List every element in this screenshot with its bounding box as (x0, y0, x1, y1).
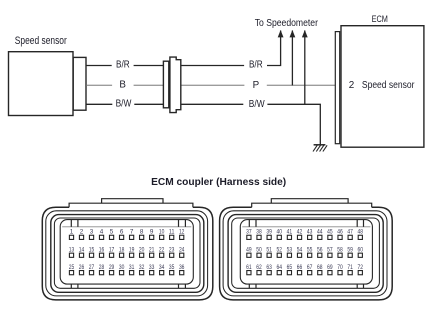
svg-text:5: 5 (110, 229, 114, 236)
svg-text:44: 44 (317, 229, 323, 236)
svg-text:43: 43 (307, 229, 313, 236)
svg-text:62: 62 (256, 264, 262, 271)
svg-text:B/W: B/W (249, 99, 265, 110)
svg-text:8: 8 (140, 229, 144, 236)
svg-text:17: 17 (109, 247, 115, 254)
svg-text:36: 36 (179, 264, 185, 271)
svg-text:28: 28 (99, 264, 105, 271)
svg-text:22: 22 (159, 247, 165, 254)
svg-text:24: 24 (179, 247, 185, 254)
svg-text:69: 69 (327, 264, 333, 271)
svg-text:Speed sensor: Speed sensor (362, 80, 415, 91)
svg-text:63: 63 (266, 264, 272, 271)
svg-text:71: 71 (347, 264, 353, 271)
svg-text:64: 64 (277, 264, 283, 271)
svg-text:50: 50 (256, 247, 262, 254)
svg-text:9: 9 (150, 229, 154, 236)
svg-text:53: 53 (287, 247, 293, 254)
svg-text:30: 30 (119, 264, 125, 271)
svg-text:45: 45 (327, 229, 333, 236)
svg-text:ECM: ECM (372, 14, 388, 25)
svg-text:19: 19 (129, 247, 135, 254)
svg-text:55: 55 (307, 247, 313, 254)
svg-text:60: 60 (358, 247, 364, 254)
svg-text:57: 57 (327, 247, 333, 254)
svg-text:33: 33 (149, 264, 155, 271)
svg-text:1: 1 (70, 229, 74, 236)
svg-text:67: 67 (307, 264, 313, 271)
svg-text:37: 37 (246, 229, 252, 236)
svg-text:B: B (119, 80, 126, 91)
svg-text:46: 46 (337, 229, 343, 236)
svg-text:20: 20 (139, 247, 145, 254)
svg-text:10: 10 (159, 229, 165, 236)
svg-text:35: 35 (169, 264, 175, 271)
svg-text:13: 13 (69, 247, 75, 254)
svg-text:56: 56 (317, 247, 323, 254)
svg-text:7: 7 (130, 229, 134, 236)
svg-text:4: 4 (100, 229, 104, 236)
svg-text:31: 31 (129, 264, 135, 271)
svg-text:B/R: B/R (116, 60, 130, 71)
svg-text:P: P (253, 80, 260, 91)
svg-text:6: 6 (120, 229, 124, 236)
svg-text:61: 61 (246, 264, 252, 271)
svg-text:23: 23 (169, 247, 175, 254)
svg-text:47: 47 (347, 229, 353, 236)
svg-text:21: 21 (149, 247, 155, 254)
svg-text:39: 39 (266, 229, 272, 236)
svg-text:To Speedometer: To Speedometer (255, 18, 319, 29)
svg-text:68: 68 (317, 264, 323, 271)
svg-text:32: 32 (139, 264, 145, 271)
svg-text:ECM coupler (Harness side): ECM coupler (Harness side) (151, 177, 286, 188)
svg-text:25: 25 (69, 264, 75, 271)
svg-text:14: 14 (79, 247, 85, 254)
svg-text:18: 18 (119, 247, 125, 254)
svg-text:12: 12 (179, 229, 185, 236)
svg-text:48: 48 (358, 229, 364, 236)
svg-text:27: 27 (89, 264, 95, 271)
svg-text:42: 42 (297, 229, 303, 236)
svg-text:15: 15 (89, 247, 95, 254)
svg-text:58: 58 (337, 247, 343, 254)
svg-text:38: 38 (256, 229, 262, 236)
svg-text:B/R: B/R (249, 60, 263, 71)
svg-text:3: 3 (90, 229, 94, 236)
svg-text:40: 40 (277, 229, 283, 236)
svg-text:72: 72 (358, 264, 364, 271)
svg-text:2: 2 (80, 229, 84, 236)
svg-text:54: 54 (297, 247, 303, 254)
svg-text:34: 34 (159, 264, 165, 271)
svg-text:26: 26 (79, 264, 85, 271)
svg-text:B/W: B/W (116, 99, 132, 110)
svg-text:52: 52 (277, 247, 283, 254)
svg-text:11: 11 (169, 229, 175, 236)
svg-text:59: 59 (347, 247, 353, 254)
svg-text:70: 70 (337, 264, 343, 271)
svg-text:29: 29 (109, 264, 115, 271)
svg-text:49: 49 (246, 247, 252, 254)
svg-text:2: 2 (349, 80, 355, 91)
svg-text:41: 41 (287, 229, 293, 236)
svg-text:65: 65 (287, 264, 293, 271)
svg-text:51: 51 (266, 247, 272, 254)
svg-text:66: 66 (297, 264, 303, 271)
svg-text:Speed sensor: Speed sensor (15, 35, 67, 47)
svg-text:16: 16 (99, 247, 105, 254)
